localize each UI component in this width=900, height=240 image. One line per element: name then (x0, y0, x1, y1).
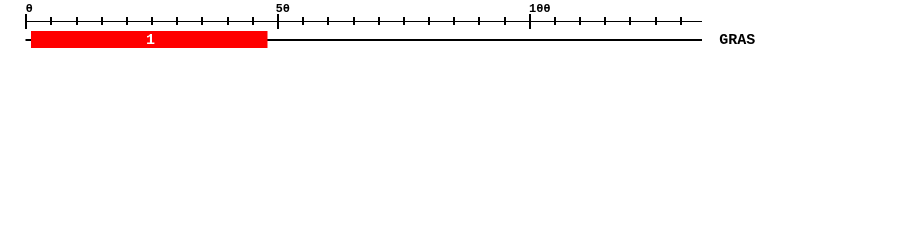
svg-text:GRAS: GRAS (719, 32, 755, 49)
major tick 100 (529, 14, 531, 29)
svg-text:0: 0 (26, 2, 33, 16)
svg-text:100: 100 (529, 2, 551, 16)
zero crossbar of label 50 (285, 7, 288, 9)
feature track baseline (26, 39, 702, 41)
minor ticks (50, 17, 682, 25)
svg-text:1: 1 (146, 32, 155, 49)
major tick 50 (277, 14, 279, 29)
background (0, 0, 900, 58)
major tick 0 (25, 14, 27, 29)
feature bar 1 (red) (31, 31, 268, 48)
ruler axis line (26, 21, 702, 22)
zero crossbar of label 0 (27, 7, 30, 9)
zero crossbars of label 100 (538, 7, 541, 9)
svg-text:50: 50 (276, 2, 290, 16)
